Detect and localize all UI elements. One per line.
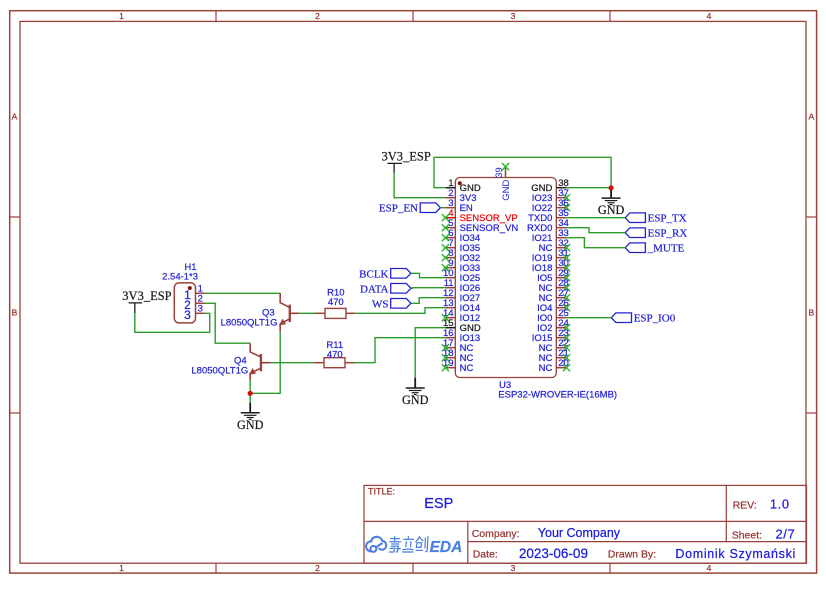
U3 pin-1 marker dot bbox=[458, 181, 462, 185]
U3 pin 28 NC bbox=[539, 278, 570, 294]
svg-text:GND: GND bbox=[501, 180, 512, 201]
U3 pin 3 EN bbox=[446, 198, 473, 214]
U3 pin 31 IO19 bbox=[532, 248, 570, 264]
svg-text:3: 3 bbox=[198, 304, 203, 315]
wire pin35 to ESP_TX bbox=[566, 217, 625, 219]
wire pin15 to ground bbox=[415, 328, 445, 378]
junction dot top right bbox=[609, 185, 614, 190]
U3 pin 6 IO34 bbox=[442, 228, 480, 244]
U3 pin 4 SENSOR_VP bbox=[442, 208, 518, 224]
svg-text:1: 1 bbox=[119, 11, 124, 21]
U3 pin 2 3V3 bbox=[446, 188, 477, 204]
U3 pin 30 IO18 bbox=[532, 258, 570, 274]
wire DATA to pin11 bbox=[411, 287, 446, 290]
svg-text:TITLE:: TITLE: bbox=[368, 486, 395, 496]
port flag DATA bbox=[391, 284, 411, 294]
svg-text:2023-06-09: 2023-06-09 bbox=[519, 546, 588, 561]
ground below Q4 bbox=[241, 403, 260, 420]
U3 pin 5 SENSOR_VN bbox=[442, 218, 519, 234]
wire BCLK to pin10 bbox=[411, 273, 446, 277]
svg-text:Your Company: Your Company bbox=[538, 526, 621, 540]
wire pin38 to junction bbox=[566, 187, 611, 189]
svg-text:2.54-1*3: 2.54-1*3 bbox=[162, 272, 198, 283]
svg-text:3: 3 bbox=[184, 308, 191, 322]
wire pin33 to _MUTE bbox=[566, 238, 625, 248]
ground below pin15 bbox=[406, 378, 425, 395]
U3 pin 7 IO35 bbox=[442, 238, 480, 254]
U3 pin 13 IO14 bbox=[443, 298, 480, 314]
wire 3V3_ESP to pin2 bbox=[394, 173, 446, 198]
svg-text:1.0: 1.0 bbox=[770, 497, 790, 512]
U3 pin 16 IO13 bbox=[443, 328, 480, 344]
svg-text:L8050QLT1G: L8050QLT1G bbox=[221, 318, 278, 329]
port flag ESP_EN bbox=[420, 203, 440, 213]
svg-text:EDA: EDA bbox=[430, 539, 463, 556]
wire H1 pin2 to Q4 collector bbox=[205, 303, 251, 343]
op-amp U1 body (ESP32 module U3) bbox=[455, 178, 556, 378]
port flag ESP_TX bbox=[625, 213, 645, 223]
svg-text:ESP_RX: ESP_RX bbox=[648, 228, 688, 240]
U3 pin 1 GND bbox=[446, 178, 481, 194]
junction dot below Q4 bbox=[248, 391, 253, 396]
U3 pin 34 RXD0 bbox=[527, 218, 569, 234]
U3 pin 22 NC bbox=[539, 338, 570, 354]
U3 pin 33 IO21 bbox=[532, 228, 569, 244]
wire WS to pin12 bbox=[411, 298, 446, 304]
U3 pin 23 IO15 bbox=[532, 328, 570, 344]
resistor R11 bbox=[314, 358, 354, 368]
svg-text:ESP_TX: ESP_TX bbox=[648, 213, 687, 225]
port flag ESP_IO0 bbox=[611, 313, 631, 323]
wire H1 pin1 to Q3 collector bbox=[205, 292, 281, 294]
U3 pin 9 IO33 bbox=[442, 258, 480, 274]
U3 pin 21 NC bbox=[539, 348, 570, 364]
svg-text:2/7: 2/7 bbox=[776, 527, 796, 542]
U3 pin 37 IO23 bbox=[532, 188, 570, 204]
port flag ESP_RX bbox=[625, 228, 645, 238]
wire 3V3_ESP to H1 pin3 bbox=[135, 313, 210, 332]
svg-text:B: B bbox=[808, 308, 814, 318]
U3 pin 18 NC bbox=[442, 348, 474, 364]
connector H1 body bbox=[174, 283, 195, 323]
wire pin1 to top rail to GND junction bbox=[434, 157, 611, 187]
ground top right bbox=[602, 188, 621, 205]
svg-text:ESP32-WROVER-IE(16MB): ESP32-WROVER-IE(16MB) bbox=[498, 389, 617, 400]
svg-text:3: 3 bbox=[511, 563, 516, 573]
svg-text:BCLK: BCLK bbox=[359, 268, 388, 280]
U3 pin 20 NC bbox=[539, 358, 570, 374]
svg-text:ESP: ESP bbox=[424, 496, 453, 512]
U3 pin 10 IO25 bbox=[443, 268, 480, 284]
svg-text:NC: NC bbox=[460, 363, 474, 374]
U3 pin 27 NC bbox=[539, 288, 570, 304]
logo chinese text 嘉立创 bbox=[389, 537, 428, 552]
resistor R10 bbox=[315, 308, 355, 318]
U3 pin 35 TXD0 bbox=[528, 208, 569, 224]
wire pin34 to ESP_RX bbox=[566, 228, 625, 233]
svg-text:3: 3 bbox=[511, 11, 516, 21]
U3 pin 25 IO0 bbox=[537, 308, 569, 324]
wire R10 to pin13 bbox=[355, 308, 446, 314]
svg-text:NC: NC bbox=[539, 363, 553, 374]
port flag WS bbox=[391, 299, 411, 309]
wire junction to ground bbox=[249, 393, 251, 402]
U3 pin 39 GND (top) bbox=[494, 163, 512, 201]
U3 pin 8 IO32 bbox=[442, 248, 480, 264]
wire Q4 base to R11 bbox=[271, 362, 314, 364]
svg-text:4: 4 bbox=[707, 563, 712, 573]
svg-text:2: 2 bbox=[315, 563, 320, 573]
U3 pin 36 IO22 bbox=[532, 198, 570, 214]
H1 pin 1 bbox=[184, 284, 204, 302]
svg-text:3V3_ESP: 3V3_ESP bbox=[382, 150, 431, 164]
svg-text:Dominik Szymański: Dominik Szymański bbox=[675, 547, 796, 561]
title block table bbox=[364, 485, 807, 563]
svg-text:REV:: REV: bbox=[733, 499, 757, 511]
svg-text:DATA: DATA bbox=[360, 283, 389, 295]
svg-text:470: 470 bbox=[328, 297, 344, 308]
svg-text:_MUTE: _MUTE bbox=[647, 243, 685, 255]
wire Q4 emitter to junction bbox=[249, 381, 251, 394]
U3 pin 12 IO27 bbox=[443, 288, 480, 304]
wire Q3 base to R10 bbox=[299, 312, 315, 314]
svg-text:GND: GND bbox=[598, 203, 625, 217]
wire R11 to pin16 bbox=[354, 338, 446, 363]
svg-text:A: A bbox=[808, 112, 814, 122]
svg-text:ESP_IO0: ESP_IO0 bbox=[634, 313, 676, 325]
svg-text:GND: GND bbox=[402, 393, 429, 407]
wire ESP_EN to pin3 bbox=[441, 207, 446, 209]
svg-text:470: 470 bbox=[327, 349, 343, 360]
wire pin25 to ESP_IO0 bbox=[566, 317, 611, 319]
U3 pin 17 NC bbox=[442, 338, 474, 354]
svg-text:Drawn By:: Drawn By: bbox=[608, 549, 656, 561]
U3 pin 14 IO12 bbox=[442, 308, 480, 324]
U3 pin 32 NC bbox=[539, 238, 570, 254]
svg-text:Company:: Company: bbox=[472, 528, 520, 540]
svg-text:Sheet:: Sheet: bbox=[732, 529, 762, 541]
svg-text:Date:: Date: bbox=[473, 549, 498, 561]
svg-text:B: B bbox=[12, 308, 18, 318]
U3 pin 29 IO5 bbox=[537, 268, 570, 284]
port flag BCLK bbox=[391, 269, 411, 279]
transistor Q4 bbox=[249, 343, 271, 381]
U3 pin 11 IO26 bbox=[444, 278, 480, 294]
U3 pin 24 IO2 bbox=[537, 318, 570, 334]
H1 pin-1 marker dot bbox=[188, 286, 192, 290]
transistor Q3 bbox=[279, 293, 299, 331]
svg-text:4: 4 bbox=[707, 11, 712, 21]
svg-text:ESP_EN: ESP_EN bbox=[379, 203, 418, 215]
U3 pin 26 IO4 bbox=[537, 298, 570, 314]
svg-text:A: A bbox=[12, 112, 18, 122]
H1 pin 2 bbox=[184, 294, 204, 312]
EasyEDA logo cloud bbox=[366, 537, 386, 552]
wire Q3 emitter down to junction bbox=[250, 331, 280, 393]
svg-text:WS: WS bbox=[372, 298, 389, 310]
U3 pin 19 NC bbox=[442, 358, 474, 374]
U3 pin 38 GND bbox=[531, 178, 569, 194]
H1 pin 3 bbox=[184, 304, 204, 322]
svg-text:GND: GND bbox=[237, 418, 264, 432]
svg-text:3V3_ESP: 3V3_ESP bbox=[122, 289, 171, 303]
svg-text:L8050QLT1G: L8050QLT1G bbox=[191, 365, 248, 376]
port flag _MUTE bbox=[625, 243, 645, 253]
svg-text:2: 2 bbox=[315, 11, 320, 21]
U3 pin 15 GND bbox=[443, 318, 481, 334]
svg-text:1: 1 bbox=[119, 563, 124, 573]
